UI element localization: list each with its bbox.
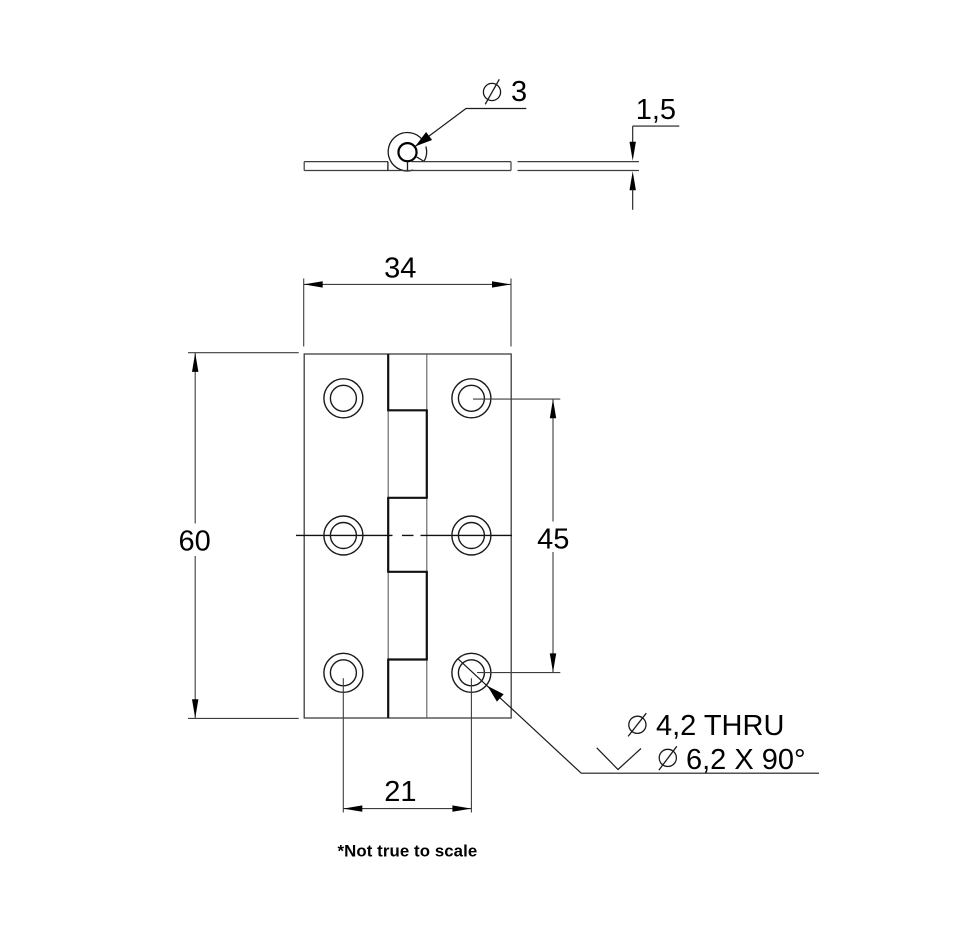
svg-text:34: 34	[384, 253, 416, 285]
svg-text:45: 45	[537, 523, 569, 555]
svg-text:1,5: 1,5	[636, 94, 676, 126]
svg-text:3: 3	[511, 76, 527, 108]
svg-text:21: 21	[384, 776, 416, 808]
svg-text:*Not true to scale: *Not true to scale	[338, 841, 478, 860]
svg-text:4,2 THRU: 4,2 THRU	[656, 710, 784, 742]
svg-text:6,2 X 90°: 6,2 X 90°	[686, 744, 806, 776]
svg-text:60: 60	[178, 526, 210, 558]
